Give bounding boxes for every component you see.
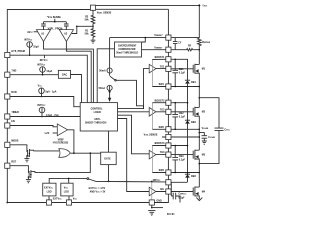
svg-text:RF: RF: [188, 46, 192, 48]
ground Q1: [24, 159, 29, 162]
terminal VSENSE-: [166, 47, 171, 52]
terminal VBAT_SENSE: [90, 5, 95, 10]
junction VLOAD node: [199, 129, 201, 131]
svg-text:1.2V: 1.2V: [44, 133, 49, 135]
wire RST to Q2 gate: [10, 166, 28, 173]
wire control logic to GATE box: [108, 131, 110, 152]
capacitor CB3: [172, 146, 178, 173]
junction divider wire: [76, 26, 78, 28]
terminal EN: [5, 123, 10, 128]
EXTVCC LDO box: [43, 183, 56, 196]
wire TG3 to M3 gate: [156, 154, 193, 156]
wire EXTVCC LDO output to switch: [49, 178, 86, 183]
svg-text:50k: 50k: [85, 20, 90, 22]
svg-text:VBAT_SENSE: VBAT_SENSE: [97, 12, 112, 15]
wire from VBAT_SENSE to right pin column: [96, 8, 169, 10]
svg-text:VCM_SENSE: VCM_SENSE: [144, 135, 158, 137]
wire VBAT perimeter rail (top-left): [7, 10, 90, 203]
terminal VCM_SENSE: [166, 134, 171, 139]
svg-text:50mA: 50mA: [99, 70, 106, 73]
terminal DRVCC: [166, 180, 171, 185]
wire bottom GND rail: [7, 202, 149, 204]
control logic box: [80, 103, 117, 131]
junction IS3: [41, 96, 43, 98]
wire DRVCC right net: [171, 181, 187, 183]
wire gate current switch to D1 net: [116, 80, 143, 108]
svg-text:BOOST1: BOOST1: [155, 57, 166, 59]
wire HYS_PRGM line: [10, 55, 87, 102]
wire CVCC rail down: [199, 131, 219, 164]
junction output tap: [199, 97, 201, 99]
wire VSENSE- net with filter: [142, 49, 200, 51]
svg-text:CF: CF: [178, 42, 182, 44]
junction CLOAD tap: [199, 132, 201, 134]
wire amp A2 output bus: [66, 42, 91, 103]
junction IS2: [42, 74, 44, 76]
capacitor CDRVCC: [171, 182, 180, 202]
terminal BOOST3: [166, 143, 171, 148]
svg-text:SHOOT-THROUGH: SHOOT-THROUGH: [85, 122, 107, 124]
current source IS5 50mA source: [107, 68, 112, 73]
svg-text:CB3: CB3: [179, 156, 184, 158]
wire charge pump top with leader: [44, 19, 67, 22]
svg-text:TIMER: TIMER: [11, 112, 19, 114]
svg-text:DAC: DAC: [62, 73, 67, 76]
terminal VCC: [66, 200, 71, 205]
capacitor CP2: [64, 22, 69, 30]
wire VCC LDO top riser: [68, 178, 70, 183]
terminal TG1: [166, 66, 171, 71]
terminal EXTVCC: [46, 200, 51, 205]
wire SW2 net: [152, 128, 199, 130]
wire divider tap to amp A2 input: [72, 26, 93, 33]
svg-text:EXTVCC: EXTVCC: [53, 198, 63, 200]
wire TG2 to M2 gate: [156, 111, 193, 113]
svg-text:AVCC: AVCC: [27, 31, 33, 34]
svg-text:10µA: 10µA: [33, 46, 39, 49]
svg-text:10µA: 10µA: [46, 70, 52, 73]
wire OC comparator output to control logic: [109, 38, 111, 102]
svg-text:HYS_PRGM: HYS_PRGM: [11, 51, 24, 53]
op-amp U2 enable comparator: [57, 124, 67, 136]
svg-text:EXTVCC: EXTVCC: [44, 188, 54, 190]
DAC box: [58, 70, 70, 78]
svg-text:INTVCC: INTVCC: [37, 105, 46, 107]
wire SW1 net: [152, 86, 199, 88]
wire control out3 to driver D3: [118, 115, 150, 154]
wire main VLOAD down: [198, 129, 200, 150]
wire GND pin stub: [151, 205, 153, 208]
svg-text:COMPARATOR: COMPARATOR: [118, 48, 135, 51]
junction SW1 main: [199, 86, 201, 88]
wire BOOST3 net: [152, 145, 187, 147]
ground M4 arrow: [196, 198, 202, 201]
svg-text:LDO: LDO: [47, 191, 52, 193]
driver D1: [149, 64, 156, 73]
driver D3 supply rail BOOST3-SW3: [151, 146, 153, 173]
svg-text:VREF: VREF: [58, 140, 65, 142]
transistor Q2 (RST pulldown): [28, 170, 35, 179]
wire SW3 net: [152, 172, 199, 174]
svg-text:CB2: CB2: [179, 113, 184, 115]
svg-text:0.1µF: 0.1µF: [178, 197, 185, 199]
junction IS1: [29, 54, 31, 56]
ground GND pin: [148, 211, 155, 216]
wire OC comparator minus input from box left: [97, 49, 114, 103]
resistor RSENSE: [198, 38, 202, 50]
transistor M2: [193, 107, 199, 130]
wire boost rail down: [187, 87, 189, 183]
svg-text:50mA: 50mA: [99, 87, 106, 90]
wire IS1 to HYS line: [29, 47, 31, 55]
terminal BG: [166, 189, 171, 194]
svg-text:DB3: DB3: [191, 176, 196, 178]
wire RUN to control logic: [10, 97, 80, 107]
terminal HYS_PRGM: [5, 52, 10, 57]
diode DB1: [185, 79, 190, 81]
switch gate current: [110, 73, 115, 80]
svg-text:SW3: SW3: [159, 170, 165, 172]
svg-text:*VCM SENSE: *VCM SENSE: [47, 17, 62, 19]
wire VSENSE+ net: [110, 37, 200, 39]
transistor M3: [193, 150, 199, 173]
junction D4 rail at switch line: [151, 181, 153, 183]
terminal MODE: [5, 142, 10, 147]
capacitor CB1: [172, 59, 178, 86]
svg-text:BG: BG: [160, 189, 164, 191]
svg-text:MODE: MODE: [11, 141, 19, 143]
capacitor CLOAD: [199, 133, 207, 141]
svg-text:0.1µF: 0.1µF: [179, 116, 186, 118]
svg-text:AND VCC > 3V: AND VCC > 3V: [90, 191, 106, 194]
node divider tap: [92, 26, 94, 28]
junction DB1 at SW1: [187, 86, 189, 88]
wire main line Rsense to M1: [198, 50, 200, 65]
svg-text:TG1: TG1: [160, 66, 165, 68]
junction DB3 at SW3: [187, 172, 189, 174]
ground Q2: [26, 180, 31, 183]
svg-text:OVERCURRENT: OVERCURRENT: [118, 45, 137, 47]
svg-text:RSENSE: RSENSE: [202, 42, 211, 44]
svg-text:VCC: VCC: [64, 188, 69, 190]
svg-text:RUN: RUN: [11, 92, 16, 94]
svg-text:50mV THRESHOLD: 50mV THRESHOLD: [116, 53, 138, 55]
svg-text:DB2: DB2: [191, 122, 196, 124]
wire EXTVCC LDO to pin: [48, 196, 50, 200]
transistor Q1 (MODE pulldown): [27, 149, 34, 158]
svg-text:VLOAD: VLOAD: [202, 127, 209, 130]
wire MODE to Q1 gate: [10, 145, 27, 152]
wire EN to comparator: [10, 126, 57, 127]
svg-text:ANTI-: ANTI-: [94, 118, 101, 121]
diode DB3: [185, 173, 190, 175]
svg-text:GATE: GATE: [104, 158, 111, 161]
wire GND side stub: [152, 207, 163, 209]
svg-text:0.1µF: 0.1µF: [179, 159, 186, 161]
svg-text:CONTROL: CONTROL: [91, 109, 103, 111]
terminal THD: [5, 72, 10, 77]
terminal TIMER: [5, 114, 10, 119]
op-amp A1: [36, 30, 50, 42]
junction bottom-left corner: [6, 202, 8, 204]
driver D2: [149, 108, 156, 117]
svg-text:TG3: TG3: [160, 152, 165, 154]
switch LDO select: [87, 178, 89, 180]
op-amp A2: [59, 30, 73, 42]
svg-text:BOOST2: BOOST2: [155, 100, 166, 102]
junction SW3 main: [199, 172, 201, 174]
resistor R1 50k: [91, 26, 95, 38]
wire main SW1 to tap: [198, 87, 200, 108]
terminal SW3: [166, 170, 171, 175]
wire comparator output down to OR output net: [68, 130, 74, 153]
svg-text:SW1: SW1: [159, 84, 165, 86]
capacitor CVCC: [215, 128, 224, 131]
svg-text:DRVCC: DRVCC: [153, 180, 161, 182]
wire tap to CVCC rail: [199, 98, 219, 128]
svg-text:VSENSE+: VSENSE+: [154, 34, 163, 37]
wire THD to DAC: [10, 74, 58, 76]
capacitor CP1: [41, 22, 46, 30]
transistor M1: [193, 64, 199, 87]
svg-text:5µA - 1µA: 5µA - 1µA: [45, 91, 56, 94]
GATE box: [101, 152, 117, 164]
terminal BOOST2: [166, 100, 171, 105]
wire GATE box output to DRVCC switch line: [108, 165, 110, 182]
junction VSENSE+ at OC box: [144, 37, 146, 39]
junction Q2 at OR net: [89, 152, 91, 154]
wire OR output to GATE box: [70, 152, 101, 154]
svg-text:TG2: TG2: [160, 109, 165, 111]
terminal SW1: [166, 84, 171, 89]
net flag INTVCC on HYS line: [43, 55, 45, 58]
wire Q1 drain to OR input 1: [34, 150, 60, 152]
wire switch output to DRVCC pin: [96, 180, 166, 183]
terminal GND: [149, 200, 154, 205]
junction VCC riser: [68, 178, 70, 180]
terminal BOOST1: [166, 57, 171, 62]
svg-text:INTVCC: INTVCC: [24, 39, 33, 41]
junction comparator at OR net: [73, 152, 75, 154]
wire VCC LDO to pin: [68, 196, 70, 200]
transistor M4: [193, 187, 199, 198]
terminal VSENSE+: [166, 35, 171, 40]
wire Q2 drain to OR output net: [35, 153, 90, 172]
wire VSENSE+ into OC box top: [142, 38, 146, 42]
terminal SW2: [166, 127, 171, 132]
resistor RF: [187, 49, 194, 51]
driver D4: [149, 187, 156, 196]
wire VCM_SENSE to main: [162, 136, 199, 138]
svg-text:CVCC: CVCC: [224, 130, 230, 132]
svg-text:INTVCC: INTVCC: [40, 60, 49, 62]
driver D1 supply rail BOOST1-SW1: [151, 60, 153, 87]
driver D2 supply rail BOOST2-SW2: [151, 103, 153, 130]
svg-text:BOOST3: BOOST3: [155, 143, 166, 145]
current source IS6 50mA sink: [107, 85, 112, 90]
wire TIMER to control logic: [10, 116, 80, 118]
junction GATE at switch line: [108, 181, 110, 183]
current source IS4: [39, 107, 45, 113]
ground CLOAD: [202, 141, 207, 144]
svg-text:CDRVCC: CDRVCC: [178, 194, 187, 196]
driver D3: [149, 150, 156, 159]
wire main SW3 to M4: [198, 173, 200, 188]
wire IS2 stub: [42, 72, 44, 74]
svg-text:LOGIC: LOGIC: [94, 112, 102, 114]
capacitor CF: [173, 38, 178, 50]
wire DAC output to control logic: [71, 75, 82, 103]
ground divider: [91, 39, 96, 44]
svg-text:CLOAD: CLOAD: [208, 136, 215, 139]
svg-text:CB1: CB1: [179, 69, 184, 71]
current source IS1 10uA: [27, 42, 33, 48]
terminal RUN: [5, 94, 10, 99]
wire control out1 to driver D1: [118, 69, 150, 109]
terminal TG3: [166, 152, 171, 157]
svg-text:INTVCC: INTVCC: [37, 64, 46, 66]
svg-text:DB1: DB1: [191, 82, 196, 84]
VCC LDO box: [61, 183, 73, 196]
svg-text:50k: 50k: [85, 33, 90, 35]
current source IS2 10uA: [40, 67, 46, 73]
overcurrent comparator box: [115, 42, 142, 57]
wire IS3 stub: [41, 94, 43, 97]
wire BOOST2 net: [152, 102, 187, 104]
capacitor CB2: [172, 103, 178, 130]
arrowhead OC line into control logic: [108, 98, 111, 102]
arrow IS6 sink: [108, 91, 111, 94]
svg-text:0.1µF: 0.1µF: [179, 72, 186, 74]
svg-text:THD: THD: [11, 70, 16, 72]
svg-text:VSENSE–: VSENSE–: [154, 46, 163, 49]
terminal RST: [5, 163, 10, 168]
wire right pin column: [154, 9, 168, 202]
node VBAT: [198, 4, 200, 6]
svg-text:LDO: LDO: [64, 191, 69, 193]
resistor R2 50k: [91, 11, 95, 27]
svg-text:SW2: SW2: [159, 127, 165, 129]
OR gate G1: [59, 149, 70, 158]
svg-text:HYSTERESIS: HYSTERESIS: [53, 143, 69, 145]
svg-text:VCC: VCC: [38, 86, 43, 88]
diode DB2: [185, 119, 190, 121]
wire BOOST1 net: [152, 59, 187, 80]
svg-text:60 F01: 60 F01: [167, 214, 175, 216]
wire BG to M4 gate: [156, 191, 193, 193]
junction IS4: [41, 116, 43, 118]
terminal TG2: [166, 109, 171, 114]
wire control out4 to driver D4: [118, 119, 150, 192]
wire amp A1 output bus: [44, 42, 94, 103]
driver D4 supply rail DRVCC-GND: [151, 181, 153, 199]
current source IS3: [39, 88, 45, 94]
junction leader: [54, 21, 56, 23]
svg-text:EXTVCC > 4.5V: EXTVCC > 4.5V: [89, 187, 106, 190]
svg-text:EN: EN: [11, 121, 15, 123]
wire control out2 to driver D2: [118, 111, 150, 113]
wire VBAT top net: [96, 5, 200, 38]
svg-text:GND: GND: [156, 201, 162, 203]
wire IS4 stub: [41, 113, 43, 117]
junction VSENSE- at main line: [199, 49, 201, 51]
wire TG1 to M1 gate: [171, 68, 193, 70]
svg-text:RST: RST: [11, 161, 16, 163]
svg-text:VCC: VCC: [73, 198, 78, 200]
